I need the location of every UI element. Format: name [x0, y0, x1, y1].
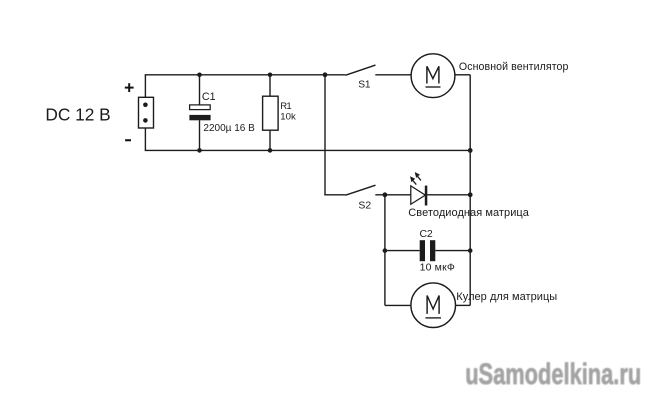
svg-text:S2: S2 — [358, 200, 371, 211]
svg-text:10k: 10k — [280, 111, 296, 122]
svg-text:Основной вентилятор: Основной вентилятор — [459, 61, 569, 73]
svg-text:Светодиодная матрица: Светодиодная матрица — [408, 207, 529, 219]
svg-text:uSamodelkina.ru: uSamodelkina.ru — [465, 358, 641, 391]
svg-text:DC 12 B: DC 12 B — [45, 104, 110, 124]
svg-text:C1: C1 — [202, 91, 216, 103]
svg-text:Кулер для матрицы: Кулер для матрицы — [456, 291, 557, 303]
svg-text:2200µ 16 В: 2200µ 16 В — [203, 123, 255, 134]
svg-text:R1: R1 — [280, 101, 291, 112]
svg-text:C2: C2 — [420, 228, 433, 240]
svg-text:10 мкФ: 10 мкФ — [420, 262, 455, 274]
svg-text:S1: S1 — [358, 80, 371, 91]
